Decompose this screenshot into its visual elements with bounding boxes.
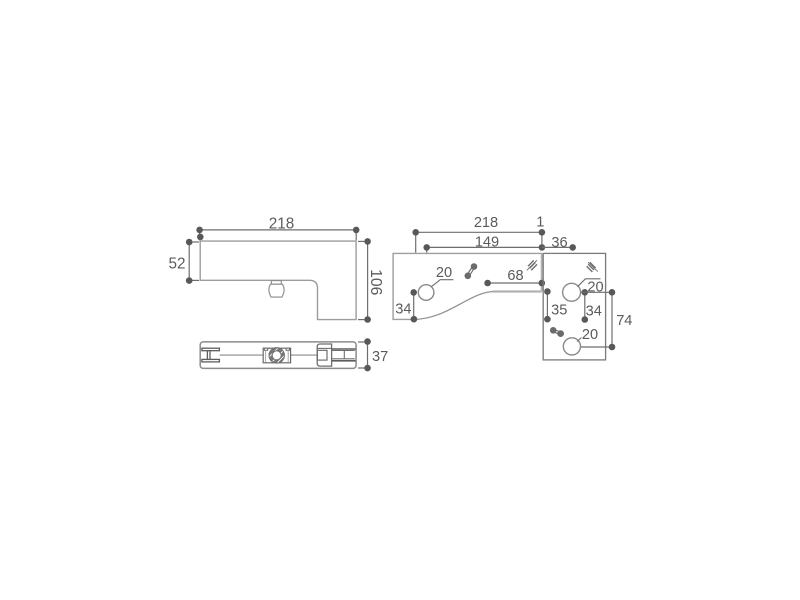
surface mark (flat view) bbox=[527, 260, 537, 270]
svg-text:1: 1 bbox=[536, 214, 544, 230]
leader wing bottom 20 bbox=[577, 338, 582, 342]
svg-text:52: 52 bbox=[168, 255, 185, 272]
leader for hole 20 bbox=[431, 280, 453, 287]
side view left glass slot clamp bbox=[202, 348, 220, 362]
svg-text:74: 74 bbox=[616, 313, 632, 329]
flat view right edge bbox=[541, 253, 543, 291]
side view centerline left bbox=[220, 354, 263, 356]
dimension 68 (flat view) bbox=[488, 282, 542, 284]
dimension 74 (wing) bbox=[581, 292, 613, 347]
dimension 106 (top view) bbox=[358, 241, 368, 319]
dimension 218 (flat view) bbox=[416, 232, 542, 252]
corner node dot bbox=[197, 234, 204, 241]
dimension 149 (flat view) bbox=[427, 247, 542, 252]
flat view hole 20 bbox=[418, 285, 434, 301]
flat view bottom-right edge bbox=[493, 290, 542, 292]
side view outline bbox=[200, 342, 356, 369]
side view center knob plate bbox=[263, 348, 290, 363]
svg-text:20: 20 bbox=[587, 280, 603, 296]
wing hole bottom 20 bbox=[563, 338, 580, 355]
pin symbol (wing) bbox=[550, 327, 564, 337]
dimension 34 (wing) bbox=[584, 292, 586, 319]
pin symbol (flat view) bbox=[465, 263, 478, 279]
flat view main plate bbox=[393, 253, 542, 319]
dimension 37 (side view) bbox=[358, 342, 368, 369]
flat view S-curve bbox=[414, 292, 494, 320]
side view right end rails bbox=[332, 349, 356, 361]
leader wing top 20 bbox=[578, 279, 601, 287]
svg-text:68: 68 bbox=[507, 268, 523, 284]
dimension 34 (flat view) bbox=[413, 292, 415, 319]
wing hole top 20 bbox=[563, 283, 581, 301]
dimension 36 (flat view) bbox=[542, 246, 573, 248]
svg-text:34: 34 bbox=[395, 301, 411, 317]
surface mark (wing) bbox=[587, 262, 598, 272]
svg-text:20: 20 bbox=[582, 327, 598, 343]
svg-text:36: 36 bbox=[551, 235, 567, 251]
svg-text:34: 34 bbox=[586, 303, 602, 319]
svg-text:35: 35 bbox=[551, 303, 567, 319]
dimension 52 (top view) bbox=[189, 242, 199, 281]
dimension 218 (top view) bbox=[200, 230, 357, 240]
svg-text:218: 218 bbox=[269, 216, 295, 233]
svg-text:37: 37 bbox=[372, 349, 388, 365]
svg-text:149: 149 bbox=[475, 234, 499, 250]
svg-text:106: 106 bbox=[367, 269, 384, 296]
flat view side wing bbox=[543, 253, 605, 360]
knob neck on top view bbox=[271, 281, 281, 285]
side view centerline right bbox=[291, 354, 317, 356]
svg-text:218: 218 bbox=[474, 215, 498, 231]
dimension 35 (wing) bbox=[546, 292, 548, 320]
top view outline (L-profile) bbox=[200, 241, 356, 320]
side view right clamp block bbox=[317, 344, 331, 366]
svg-text:20: 20 bbox=[436, 265, 452, 281]
knob barrel on top view bbox=[269, 284, 284, 297]
